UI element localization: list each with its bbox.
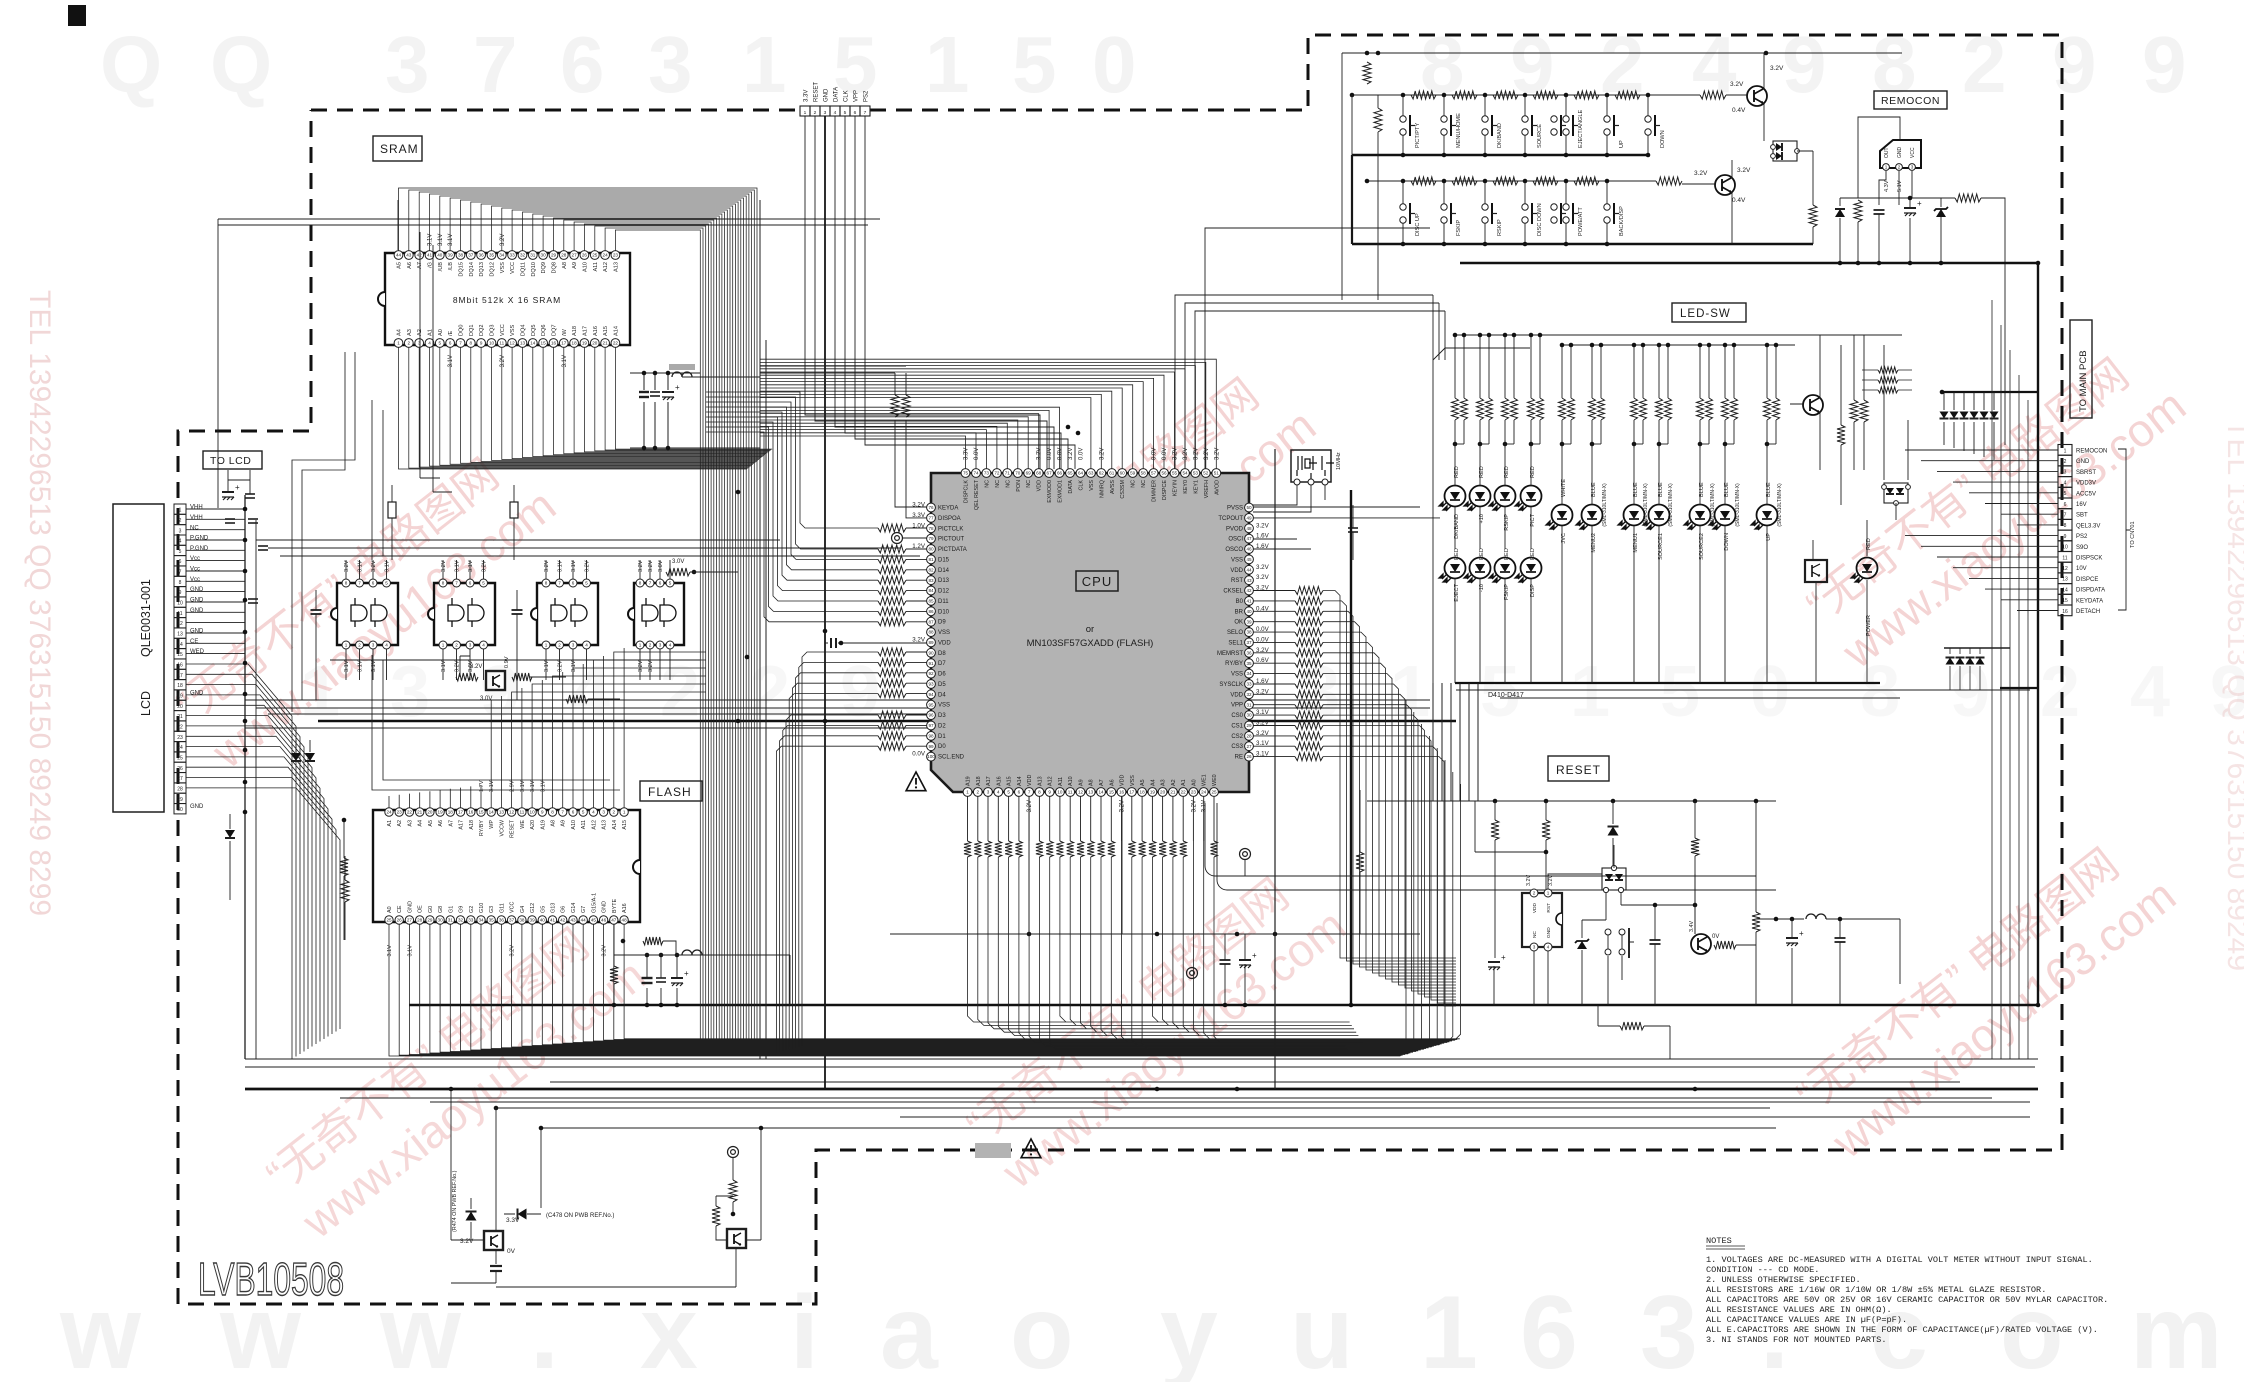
svg-text:33: 33 bbox=[468, 918, 474, 923]
svg-text:A3: A3 bbox=[407, 820, 413, 827]
svg-text:0V: 0V bbox=[1712, 934, 1719, 940]
svg-text:CLK: CLK bbox=[844, 90, 850, 102]
svg-text:11: 11 bbox=[499, 341, 504, 346]
svg-text:28: 28 bbox=[417, 918, 423, 923]
svg-text:VCC: VCC bbox=[510, 262, 516, 274]
svg-text:DATA: DATA bbox=[834, 87, 840, 102]
svg-text:1: 1 bbox=[623, 810, 626, 815]
svg-text:3: 3 bbox=[418, 341, 421, 346]
svg-text:A9: A9 bbox=[1079, 779, 1085, 786]
svg-text:/E: /E bbox=[448, 330, 454, 336]
svg-text:1: 1 bbox=[804, 110, 807, 116]
svg-text:m: m bbox=[2130, 1275, 2222, 1382]
svg-text:3.1V: 3.1V bbox=[358, 560, 364, 572]
svg-text:75: 75 bbox=[963, 471, 969, 476]
svg-text:A15: A15 bbox=[603, 326, 609, 336]
diode row lower right bbox=[1944, 647, 2010, 649]
svg-text:LVB10508: LVB10508 bbox=[198, 1253, 344, 1305]
svg-text:10: 10 bbox=[177, 601, 183, 607]
ferrite bead L SRAM bbox=[669, 364, 695, 370]
dual diode pack LED bbox=[1884, 483, 1908, 503]
svg-text:9: 9 bbox=[2052, 20, 2097, 109]
svg-text:A7: A7 bbox=[1099, 779, 1105, 786]
svg-text:PICTDATA: PICTDATA bbox=[938, 547, 967, 553]
svg-text:9: 9 bbox=[179, 590, 182, 596]
wire stubs SRAM left bbox=[218, 200, 880, 508]
svg-text:ACC5V: ACC5V bbox=[2076, 491, 2096, 497]
svg-text:DQ3: DQ3 bbox=[490, 324, 496, 336]
svg-text:3: 3 bbox=[987, 790, 990, 795]
svg-text:5: 5 bbox=[2064, 491, 2067, 497]
svg-text:SBT: SBT bbox=[2076, 513, 2088, 519]
svg-text:Vcc: Vcc bbox=[190, 577, 200, 583]
svg-text:GND: GND bbox=[824, 88, 830, 102]
wires LED bottom to right bbox=[1456, 689, 2030, 691]
svg-text:G0: G0 bbox=[428, 906, 434, 913]
svg-text:PICTOUT: PICTOUT bbox=[938, 537, 965, 543]
svg-text:QEL RESET: QEL RESET bbox=[974, 479, 980, 510]
svg-text:DQ0: DQ0 bbox=[459, 324, 465, 336]
svg-text:23: 23 bbox=[613, 253, 619, 258]
gate area horizontal wires bbox=[256, 539, 780, 541]
transistor LED driver bbox=[1803, 395, 1823, 415]
svg-text:DQ1: DQ1 bbox=[469, 324, 475, 336]
svg-text:93: 93 bbox=[928, 682, 934, 687]
svg-text:A3: A3 bbox=[1161, 779, 1167, 786]
svg-text:30: 30 bbox=[541, 253, 547, 258]
svg-text:27: 27 bbox=[572, 253, 578, 258]
svg-text:4: 4 bbox=[585, 643, 588, 648]
svg-text:5.1V: 5.1V bbox=[1897, 180, 1903, 192]
svg-text:VSS: VSS bbox=[1231, 557, 1243, 563]
svg-text:79: 79 bbox=[928, 536, 934, 541]
svg-text:5: 5 bbox=[439, 341, 442, 346]
svg-text:0.4V: 0.4V bbox=[1732, 107, 1746, 114]
svg-text:VHH: VHH bbox=[190, 505, 203, 511]
IC CPU top pins 75-51 bbox=[961, 469, 970, 478]
svg-text:GND: GND bbox=[2076, 459, 2090, 465]
svg-text:VDD: VDD bbox=[1230, 568, 1243, 574]
svg-text:34: 34 bbox=[1246, 671, 1252, 676]
IC FLASH body bbox=[373, 810, 640, 922]
svg-text:VDD: VDD bbox=[1037, 480, 1043, 491]
transistor Q4 area bbox=[728, 1147, 739, 1158]
svg-text:3.1V: 3.1V bbox=[562, 355, 568, 367]
svg-text:82: 82 bbox=[928, 567, 934, 572]
wires from 7-pin connector bbox=[805, 116, 1040, 469]
svg-text:4: 4 bbox=[428, 341, 431, 346]
svg-text:FLASH: FLASH bbox=[648, 785, 692, 799]
svg-text:13: 13 bbox=[2062, 577, 2068, 583]
svg-text:CONDITION --- CD MODE.: CONDITION --- CD MODE. bbox=[1706, 1265, 1819, 1275]
svg-text:VDD: VDD bbox=[1120, 775, 1126, 786]
svg-text:RST: RST bbox=[1231, 578, 1243, 584]
svg-text:RY/BY: RY/BY bbox=[479, 820, 485, 836]
svg-text:18: 18 bbox=[177, 683, 183, 689]
svg-text:1: 1 bbox=[1885, 165, 1888, 170]
dashed board outline LVB10508 bbox=[178, 35, 2062, 1304]
svg-text:27: 27 bbox=[1246, 744, 1252, 749]
svg-text:2: 2 bbox=[814, 110, 817, 116]
svg-text:55: 55 bbox=[1172, 471, 1178, 476]
svg-text:19: 19 bbox=[582, 341, 588, 346]
label box FLASH bbox=[640, 781, 702, 801]
svg-text:VSS: VSS bbox=[1089, 480, 1095, 491]
svg-text:G9: G9 bbox=[459, 906, 465, 913]
svg-text:78: 78 bbox=[928, 526, 934, 531]
wire bundle SRAM top pins bbox=[399, 188, 758, 1052]
svg-text:(SML-310LT/MN-X): (SML-310LT/MN-X) bbox=[1735, 483, 1741, 527]
svg-text:A6: A6 bbox=[407, 262, 413, 269]
svg-text:10: 10 bbox=[489, 341, 495, 346]
svg-text:0V: 0V bbox=[507, 1248, 516, 1255]
svg-text:39: 39 bbox=[448, 253, 454, 258]
svg-text:A16: A16 bbox=[593, 326, 599, 336]
svg-text:3.1V: 3.1V bbox=[455, 560, 461, 572]
svg-text:G3: G3 bbox=[489, 906, 495, 913]
svg-text:4.3V: 4.3V bbox=[1884, 180, 1890, 192]
LED resistor pairs bbox=[1452, 398, 1459, 420]
svg-text:A0: A0 bbox=[1191, 779, 1197, 786]
svg-text:1.7V: 1.7V bbox=[479, 780, 485, 792]
svg-text:+: + bbox=[675, 383, 680, 392]
svg-text:36: 36 bbox=[1246, 650, 1252, 655]
svg-text:Q: Q bbox=[210, 20, 272, 109]
svg-text:3.1V: 3.1V bbox=[468, 560, 474, 572]
svg-text:19: 19 bbox=[177, 694, 183, 700]
svg-text:4: 4 bbox=[669, 643, 672, 648]
svg-text:3. NI STANDS FOR NOT MOUNTED: 3. NI STANDS FOR NOT MOUNTED PARTS. bbox=[1706, 1335, 1887, 1345]
zener remocon bbox=[1936, 209, 1946, 217]
svg-text:A5: A5 bbox=[1140, 779, 1146, 786]
svg-text:QLE0031-001: QLE0031-001 bbox=[139, 579, 153, 657]
svg-text:39: 39 bbox=[1246, 619, 1252, 624]
svg-text:CE: CE bbox=[397, 905, 403, 913]
svg-text:67: 67 bbox=[1047, 471, 1053, 476]
svg-text:VPP: VPP bbox=[854, 90, 860, 102]
svg-text:32: 32 bbox=[520, 253, 526, 258]
svg-text:CS1: CS1 bbox=[1231, 724, 1243, 730]
IC SRAM 8Mbit 512K X 16 body bbox=[385, 253, 630, 345]
svg-text:2: 2 bbox=[1962, 20, 2007, 109]
wires LCD connector to bus bbox=[186, 509, 245, 654]
svg-text:7: 7 bbox=[558, 581, 561, 586]
diode C478 bbox=[518, 1209, 527, 1220]
svg-text:15: 15 bbox=[541, 341, 547, 346]
svg-text:NC: NC bbox=[984, 480, 990, 488]
svg-text:A17: A17 bbox=[582, 326, 588, 336]
svg-text:26: 26 bbox=[177, 766, 183, 772]
svg-text:/W: /W bbox=[562, 328, 568, 336]
svg-text:A12: A12 bbox=[603, 262, 609, 272]
svg-text:SEL1: SEL1 bbox=[1228, 640, 1243, 646]
svg-text:0.0V: 0.0V bbox=[1152, 448, 1158, 460]
svg-text:7: 7 bbox=[473, 20, 518, 109]
svg-text:PICT/PTY: PICT/PTY bbox=[1415, 123, 1421, 148]
svg-text:83: 83 bbox=[928, 578, 934, 583]
svg-text:DISPCE: DISPCE bbox=[1162, 480, 1168, 500]
svg-text:A16: A16 bbox=[996, 776, 1002, 786]
svg-text:45: 45 bbox=[1246, 557, 1252, 562]
svg-text:52: 52 bbox=[1203, 471, 1209, 476]
svg-text:12: 12 bbox=[177, 621, 183, 627]
svg-text:or: or bbox=[1086, 624, 1094, 635]
svg-text:TEL 13942296513 QQ 376315150 8: TEL 13942296513 QQ 376315150 89249 bbox=[2221, 420, 2244, 971]
reset right filter bbox=[1756, 918, 1804, 920]
capacitor remocon bbox=[1874, 209, 1885, 211]
svg-text:86: 86 bbox=[928, 609, 934, 614]
svg-text:A14: A14 bbox=[613, 326, 619, 336]
resistor under gates bbox=[566, 695, 588, 703]
svg-text:4: 4 bbox=[179, 539, 182, 545]
svg-text:A8: A8 bbox=[562, 262, 568, 269]
svg-text:48: 48 bbox=[1246, 526, 1252, 531]
transistor Q2 key matrix bbox=[1715, 175, 1735, 195]
svg-text:9: 9 bbox=[1510, 20, 1555, 109]
svg-text:4: 4 bbox=[1547, 945, 1550, 950]
svg-text:POWE/ATT: POWE/ATT bbox=[1578, 207, 1584, 236]
svg-text:95: 95 bbox=[928, 702, 934, 707]
svg-text:0.0V: 0.0V bbox=[1058, 448, 1064, 460]
svg-text:6: 6 bbox=[1520, 1275, 1578, 1382]
svg-text:16: 16 bbox=[551, 341, 557, 346]
svg-text:D1: D1 bbox=[938, 734, 946, 740]
svg-text:17: 17 bbox=[177, 673, 183, 679]
svg-text:0.4V: 0.4V bbox=[1732, 197, 1746, 204]
svg-text:VSS: VSS bbox=[1130, 775, 1136, 786]
svg-text:84: 84 bbox=[928, 588, 934, 593]
svg-text:PON: PON bbox=[1016, 480, 1022, 492]
IC gate U1 gate symbols bbox=[351, 598, 367, 627]
svg-text:8: 8 bbox=[179, 580, 182, 586]
svg-text:3.2V: 3.2V bbox=[344, 560, 350, 572]
svg-text:AVOD: AVOD bbox=[1214, 480, 1220, 495]
svg-text:A20: A20 bbox=[530, 820, 536, 830]
svg-text:3.4V: 3.4V bbox=[1689, 921, 1695, 932]
wire verticals to LCD caps bbox=[420, 232, 452, 492]
svg-text:TEL 13942296513 QQ 376315150 8: TEL 13942296513 QQ 376315150 89249 8299 bbox=[23, 290, 56, 916]
svg-text:39: 39 bbox=[530, 918, 536, 923]
svg-text:RESET: RESET bbox=[1556, 763, 1601, 777]
svg-text:P.GND: P.GND bbox=[190, 536, 209, 542]
IC SRAM bottom pins 1-22 bbox=[394, 339, 403, 348]
svg-text:3.2V: 3.2V bbox=[638, 560, 644, 572]
resistors switch row 2 bbox=[1411, 177, 1436, 185]
wire fan CPU left to bundle upper bbox=[706, 392, 878, 622]
svg-text:CS3: CS3 bbox=[1231, 744, 1243, 750]
transistor Q3 box bbox=[484, 1231, 503, 1250]
svg-text:4: 4 bbox=[997, 790, 1000, 795]
svg-text:30: 30 bbox=[177, 807, 183, 813]
reset supervisor IC bbox=[1522, 893, 1562, 947]
svg-text:DATA: DATA bbox=[1068, 480, 1074, 494]
svg-text:TCPOUT: TCPOUT bbox=[1218, 516, 1243, 522]
diode D R474 bbox=[466, 1212, 477, 1221]
resistor right of CPU top bbox=[1356, 852, 1364, 872]
IC gate U2 body bbox=[434, 583, 495, 645]
svg-text:40: 40 bbox=[1246, 609, 1252, 614]
svg-text:41: 41 bbox=[427, 253, 433, 258]
svg-text:2: 2 bbox=[977, 790, 980, 795]
svg-text:SBRST: SBRST bbox=[2076, 470, 2096, 476]
svg-text:NC: NC bbox=[1131, 480, 1137, 488]
svg-text:3.1V: 3.1V bbox=[441, 660, 447, 672]
svg-text:S9O: S9O bbox=[2076, 545, 2088, 551]
svg-text:G10: G10 bbox=[479, 903, 485, 913]
svg-text:VCC: VCC bbox=[1910, 147, 1916, 158]
svg-text:3.2V: 3.2V bbox=[585, 560, 591, 572]
svg-text:FSKIP: FSKIP bbox=[1456, 220, 1462, 236]
svg-text:5: 5 bbox=[585, 581, 588, 586]
svg-text:BR: BR bbox=[1235, 609, 1244, 615]
svg-text:19: 19 bbox=[438, 810, 444, 815]
svg-text:NC: NC bbox=[190, 525, 199, 531]
svg-text:LED-SW: LED-SW bbox=[1680, 308, 1731, 320]
svg-text:7: 7 bbox=[561, 810, 564, 815]
svg-text:3.2V: 3.2V bbox=[460, 1238, 474, 1245]
svg-text:RESET: RESET bbox=[510, 819, 516, 838]
svg-text:3.2V: 3.2V bbox=[1737, 167, 1751, 174]
svg-text:A0: A0 bbox=[387, 906, 393, 913]
svg-text:3.2V: 3.2V bbox=[1256, 522, 1270, 529]
dual diode pack D key matrix bbox=[1773, 141, 1797, 161]
svg-text:SRAM: SRAM bbox=[380, 142, 419, 156]
wires CPU upper-left pins bbox=[895, 420, 927, 518]
svg-text:/UB: /UB bbox=[438, 262, 444, 272]
svg-text:CS3SM: CS3SM bbox=[1120, 479, 1126, 498]
svg-text:35: 35 bbox=[489, 253, 495, 258]
svg-text:5: 5 bbox=[1007, 790, 1010, 795]
svg-text:(SML-310LT/MN-X): (SML-310LT/MN-X) bbox=[1602, 483, 1608, 527]
svg-text:5: 5 bbox=[179, 549, 182, 555]
svg-text:47: 47 bbox=[1246, 536, 1252, 541]
svg-text:2: 2 bbox=[2040, 652, 2080, 732]
svg-text:VDD: VDD bbox=[1532, 902, 1538, 913]
svg-text:KEYDATA: KEYDATA bbox=[2076, 598, 2103, 604]
svg-text:6: 6 bbox=[449, 341, 452, 346]
svg-text:1. VOLTAGES ARE DC-MEASURED W: 1. VOLTAGES ARE DC-MEASURED WITH A DIGIT… bbox=[1706, 1255, 2093, 1265]
svg-text:20: 20 bbox=[177, 704, 183, 710]
svg-text:22: 22 bbox=[407, 810, 413, 815]
svg-text:2.9V: 2.9V bbox=[510, 780, 516, 792]
svg-text:41: 41 bbox=[550, 918, 556, 923]
svg-text:SELO: SELO bbox=[1227, 630, 1243, 636]
svg-text:34: 34 bbox=[499, 253, 505, 258]
transistor Q1 key matrix bbox=[1747, 86, 1767, 106]
svg-text:ALL RESISTORS ARE 1/16W OR 1/1: ALL RESISTORS ARE 1/16W OR 1/10W OR 1/8W… bbox=[1706, 1285, 2046, 1295]
svg-text:GND: GND bbox=[190, 598, 204, 604]
svg-text:D5: D5 bbox=[938, 682, 946, 688]
wires CPU right upper pins bbox=[1253, 507, 1440, 549]
svg-text:WE: WE bbox=[520, 820, 526, 829]
svg-text:3.1V: 3.1V bbox=[438, 234, 444, 246]
capacitors below CPU bbox=[1220, 959, 1231, 961]
svg-text:0.0V: 0.0V bbox=[1047, 448, 1053, 460]
wire feed Q3 bbox=[450, 1089, 452, 1240]
svg-text:0.9V: 0.9V bbox=[504, 656, 510, 668]
svg-text:8: 8 bbox=[442, 581, 445, 586]
svg-text:GND: GND bbox=[602, 901, 608, 913]
svg-text:TO MAIN PCB: TO MAIN PCB bbox=[2078, 350, 2089, 412]
vertical bus left of gates bbox=[244, 495, 246, 1059]
svg-text:OSCO: OSCO bbox=[1225, 547, 1243, 553]
svg-text:6: 6 bbox=[659, 581, 662, 586]
svg-text:A18: A18 bbox=[469, 820, 475, 830]
svg-text:RESET: RESET bbox=[814, 82, 820, 102]
svg-text:VSS: VSS bbox=[510, 325, 516, 336]
thick stub right edge bbox=[2000, 687, 2038, 689]
svg-text:G4: G4 bbox=[520, 906, 526, 913]
svg-text:3.1V: 3.1V bbox=[544, 660, 550, 672]
svg-text:RY/BY: RY/BY bbox=[1225, 661, 1243, 667]
svg-text:4: 4 bbox=[834, 110, 837, 116]
svg-text:DQ4: DQ4 bbox=[521, 324, 527, 336]
svg-text:3: 3 bbox=[824, 110, 827, 116]
svg-text:DQ12: DQ12 bbox=[490, 262, 496, 277]
wire bus y934 bbox=[890, 933, 1420, 935]
label box LED-SW bbox=[1672, 303, 1746, 322]
svg-text:WE1: WE1 bbox=[1202, 774, 1208, 786]
svg-text:8: 8 bbox=[551, 810, 554, 815]
svg-text:OK: OK bbox=[1234, 620, 1243, 626]
svg-text:33: 33 bbox=[1246, 682, 1252, 687]
svg-text:OUT: OUT bbox=[1884, 147, 1890, 158]
svg-text:8: 8 bbox=[639, 581, 642, 586]
svg-text:3.2V: 3.2V bbox=[544, 560, 550, 572]
switch matrix rails bbox=[1342, 52, 1902, 54]
svg-text:A5: A5 bbox=[397, 262, 403, 269]
svg-text:43: 43 bbox=[1246, 578, 1252, 583]
label box TO LCD bbox=[203, 451, 262, 469]
svg-text:CE: CE bbox=[190, 639, 198, 645]
svg-text:77: 77 bbox=[928, 516, 934, 521]
svg-text:6: 6 bbox=[372, 581, 375, 586]
svg-text:WED: WED bbox=[190, 649, 205, 655]
svg-text:A3: A3 bbox=[407, 329, 413, 336]
svg-text:14: 14 bbox=[1098, 790, 1104, 795]
svg-text:24: 24 bbox=[1201, 790, 1207, 795]
svg-text:8: 8 bbox=[545, 581, 548, 586]
svg-text:A10: A10 bbox=[1068, 776, 1074, 786]
svg-text:3.2V: 3.2V bbox=[648, 560, 654, 572]
svg-text:22: 22 bbox=[177, 725, 183, 731]
svg-text:MENU/HOME: MENU/HOME bbox=[1456, 113, 1462, 148]
svg-text:32: 32 bbox=[1246, 692, 1252, 697]
svg-text:REMOCON: REMOCON bbox=[1881, 95, 1940, 107]
svg-text:3.1V: 3.1V bbox=[385, 560, 391, 572]
svg-text:VREFH: VREFH bbox=[1204, 480, 1210, 498]
svg-text:1: 1 bbox=[966, 790, 969, 795]
svg-text:16V: 16V bbox=[2076, 502, 2087, 508]
svg-text:3.1V: 3.1V bbox=[387, 945, 393, 957]
svg-text:3: 3 bbox=[572, 643, 575, 648]
resistors CPU left data bus bbox=[878, 524, 906, 532]
svg-text:90: 90 bbox=[928, 650, 934, 655]
svg-text:G13: G13 bbox=[551, 903, 557, 913]
IC SRAM top pins 44-23 bbox=[394, 251, 403, 260]
gray legend box bbox=[975, 1143, 1011, 1158]
svg-text:36: 36 bbox=[479, 253, 485, 258]
svg-text:63: 63 bbox=[1088, 471, 1094, 476]
svg-text:6: 6 bbox=[469, 581, 472, 586]
svg-text:A15: A15 bbox=[1007, 776, 1013, 786]
svg-text:EJECT/ANGLE: EJECT/ANGLE bbox=[1578, 109, 1584, 148]
vertical feeder lines right bbox=[1991, 300, 1993, 1059]
svg-text:+: + bbox=[235, 483, 240, 492]
nested corner below CPU right bbox=[1205, 803, 1776, 890]
svg-text:DIMMER: DIMMER bbox=[1152, 480, 1158, 502]
svg-text:31: 31 bbox=[448, 918, 454, 923]
